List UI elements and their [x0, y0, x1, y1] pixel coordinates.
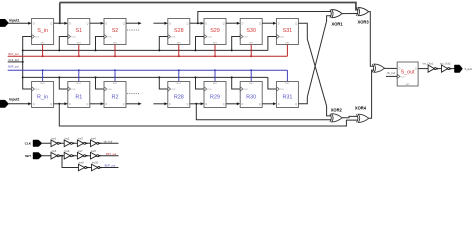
svg-text:XOR1: XOR1	[332, 22, 344, 27]
wire CLK_buf feed	[8, 61, 23, 63]
svg-text:CLK: CLK	[107, 37, 112, 39]
svg-text:Q: Q	[50, 22, 52, 25]
svg-text:D: D	[105, 103, 107, 106]
svg-text:D: D	[278, 103, 280, 106]
wire RST rail (red)	[8, 55, 288, 57]
inverter inv3	[77, 137, 87, 147]
wire BUF rail (blue)	[8, 69, 288, 71]
wire into S28.D (break)	[153, 22, 167, 25]
node branch after inv5	[61, 155, 63, 157]
flip-flop S31	[276, 19, 298, 45]
svg-text:SET: SET	[77, 43, 82, 45]
svg-text:R30: R30	[246, 94, 256, 100]
svg-text:D: D	[169, 103, 171, 106]
svg-text:R2: R2	[112, 94, 119, 100]
svg-text:BUF_out: BUF_out	[105, 163, 116, 167]
wire RST stub R2 (blue)	[114, 69, 116, 81]
svg-text:Input2: Input2	[9, 98, 19, 102]
svg-text:S1: S1	[76, 28, 83, 34]
wire CLK stub R31	[268, 77, 277, 89]
flip-flop R28	[168, 82, 190, 108]
net label CLK_buf	[8, 58, 18, 62]
svg-text:S_in: S_in	[37, 28, 48, 34]
svg-text:CLK: CLK	[401, 77, 406, 79]
svg-text:SET: SET	[406, 84, 411, 86]
svg-text:inv4: inv4	[91, 137, 96, 141]
svg-text:CLK: CLK	[71, 37, 76, 39]
wire SET stub S_in (red)	[42, 45, 44, 58]
flip-flop S1	[68, 19, 90, 45]
xor gate XOR4	[355, 105, 369, 122]
wire CLK stub S30	[231, 37, 241, 52]
wire CLK stub R29	[195, 76, 205, 89]
svg-text:CLK: CLK	[71, 89, 76, 91]
flip-flop S_in	[32, 19, 54, 45]
wire R29.Q to R30.D	[226, 102, 240, 105]
node after inv_Out1	[436, 68, 441, 70]
svg-text:clk_buf: clk_buf	[104, 139, 113, 143]
wire CLK stub S29	[195, 37, 205, 52]
svg-text:CLK: CLK	[35, 89, 40, 91]
xor gate XOR2	[330, 107, 343, 122]
wire riser S28 tap to XOR1 top input rail	[198, 12, 331, 24]
wire XOR2 out to XOR4 top input	[342, 116, 358, 117]
svg-text:CLK: CLK	[171, 37, 176, 39]
wire CLK stub R2	[95, 76, 105, 89]
wire R31.Q up to crossing diagonal	[298, 97, 307, 104]
wire CLK stub S_in	[23, 37, 32, 51]
wire R_in tap down to XOR4 rail	[59, 104, 357, 126]
svg-text:S31: S31	[283, 28, 293, 34]
inverter inv8	[91, 149, 101, 159]
wire clk_buf to S_out.CLK	[386, 75, 397, 77]
wire RST stub R29 (blue)	[214, 69, 216, 81]
wire crossing diagonal R31 to XOR1 bottom input	[307, 16, 331, 97]
svg-text:Q: Q	[187, 22, 189, 25]
wire XOR1 out to XOR3	[342, 13, 358, 15]
svg-text:clk_buf: clk_buf	[387, 71, 395, 75]
wire top CLK rail	[23, 49, 268, 51]
svg-text:RST_out: RST_out	[8, 52, 19, 56]
inverter inv7	[77, 149, 87, 159]
flip-flop R30	[240, 82, 262, 108]
svg-text:R_in: R_in	[37, 94, 48, 100]
input pin Input1	[0, 19, 19, 27]
wire XOR3 out down to XOR5 top input	[369, 12, 374, 67]
flip-flop S30	[240, 19, 262, 45]
wire S_out.Q to inverter chain	[418, 68, 428, 70]
inverter inv_Out2	[440, 61, 451, 72]
wire Input1 to S_in.D	[8, 22, 32, 25]
svg-text:Q: Q	[259, 22, 261, 25]
flip-flop R_in	[32, 82, 54, 108]
svg-text:inv_Out2: inv_Out2	[440, 61, 451, 65]
wire RST stub R1 (blue)	[78, 69, 80, 81]
wire S_in.Q to S1.D with node tap	[54, 22, 68, 25]
svg-text:D: D	[33, 22, 35, 25]
wire top feedback rail to XOR3 top input	[60, 3, 358, 10]
svg-text:RST: RST	[249, 83, 254, 85]
wire R30.Q to R31.D	[262, 102, 276, 105]
wire RST stub R30 (blue)	[250, 69, 252, 81]
wire SET chain	[41, 155, 118, 157]
node CLK distribution vertical	[22, 49, 24, 78]
svg-text:CLK: CLK	[207, 89, 212, 91]
svg-text:S28: S28	[174, 28, 184, 34]
svg-text:SET: SET	[177, 43, 182, 45]
inverter inv4	[91, 137, 101, 147]
svg-text:inv8: inv8	[91, 149, 96, 153]
svg-text:CLK: CLK	[107, 89, 112, 91]
svg-text:inv1: inv1	[51, 137, 56, 141]
wire S28.Q to S29.D with node tap	[190, 22, 204, 25]
svg-text:RST: RST	[285, 83, 290, 85]
svg-text:S30: S30	[246, 28, 256, 34]
svg-text:RST: RST	[177, 83, 182, 85]
xor gate XOR1	[330, 10, 343, 27]
xor gate XOR3	[356, 8, 369, 25]
inverter inv5	[51, 149, 61, 159]
flip-flop R2	[104, 82, 126, 108]
wire R1.Q to R2.D	[90, 102, 104, 105]
wire S1.Q to S2.D	[90, 22, 104, 25]
svg-text:RST_out: RST_out	[106, 152, 117, 156]
ellipsis break bottom row	[127, 93, 139, 94]
svg-text:D: D	[205, 22, 207, 25]
svg-text:inv5: inv5	[51, 149, 56, 153]
wire RST stub R28 (blue)	[178, 69, 180, 81]
net label RST_out chain output (red)	[106, 152, 117, 156]
flip-flop R29	[204, 82, 226, 108]
svg-text:inv6: inv6	[65, 149, 70, 153]
wire into R28.D (break)	[153, 102, 167, 105]
wire S30.Q to S31.D	[262, 22, 276, 25]
svg-text:D: D	[278, 22, 280, 25]
svg-text:D: D	[242, 22, 244, 25]
svg-text:XOR2: XOR2	[331, 107, 343, 112]
ellipsis break top row	[127, 29, 139, 30]
flip-flop S_out	[397, 62, 418, 86]
wire RST stub R_in (blue)	[42, 69, 44, 81]
wire S31.Q down to crossing diagonal	[298, 23, 307, 39]
wire SET stub S2 (red)	[114, 45, 116, 58]
svg-text:inv3: inv3	[78, 137, 83, 141]
wire SET stub S28 (red)	[178, 45, 180, 58]
svg-text:S2: S2	[112, 28, 119, 34]
svg-text:R31: R31	[282, 94, 292, 100]
wire RST stub R31 (blue)	[286, 70, 288, 81]
inverter inv_Out1	[423, 61, 437, 72]
svg-text:SET: SET	[113, 43, 118, 45]
flip-flop S29	[204, 19, 226, 45]
wire CLK stub S1	[58, 37, 68, 52]
input pin CLK	[25, 141, 42, 147]
net label BUF_out chain output (blue)	[105, 163, 116, 167]
svg-text:CLK: CLK	[244, 89, 249, 91]
svg-text:Q: Q	[259, 103, 261, 106]
wire crossing diagonal S31 to XOR2 top input	[307, 39, 331, 116]
svg-text:Q: Q	[87, 22, 89, 25]
svg-text:RST: RST	[40, 83, 45, 85]
wire S29.Q to S30.D	[226, 22, 240, 25]
svg-text:Q: Q	[415, 67, 417, 70]
svg-text:CLK: CLK	[280, 89, 285, 91]
wire CLK stub R1	[58, 76, 68, 89]
wire XOR5 out to S_out.D	[384, 67, 397, 69]
wire SET stub S1 (red)	[78, 45, 80, 58]
inverter inv2	[64, 137, 74, 147]
svg-text:S_out: S_out	[401, 70, 416, 76]
svg-text:SET: SET	[40, 43, 45, 45]
input pin SET	[25, 153, 41, 159]
svg-text:RST: RST	[213, 83, 218, 85]
svg-text:inv7: inv7	[78, 149, 83, 153]
flip-flop R1	[68, 82, 90, 108]
svg-text:D: D	[169, 22, 171, 25]
inverter inv6	[64, 149, 74, 159]
svg-text:inv9: inv9	[79, 161, 84, 165]
svg-text:D: D	[242, 103, 244, 106]
xor gate XOR5	[372, 64, 384, 72]
svg-text:BUF_out: BUF_out	[8, 64, 19, 68]
svg-text:S_out1: S_out1	[465, 68, 473, 71]
svg-text:D: D	[69, 22, 71, 25]
flip-flop R31	[276, 82, 298, 108]
svg-text:XOR4: XOR4	[355, 105, 367, 110]
wire R_in.Q to R1.D with node tap	[54, 102, 68, 105]
wire CLK stub S28	[158, 37, 168, 52]
svg-text:Q: Q	[295, 22, 297, 25]
svg-text:D: D	[205, 103, 207, 106]
svg-text:Q: Q	[223, 22, 225, 25]
svg-text:Q: Q	[187, 103, 189, 106]
inverter inv9	[78, 161, 88, 171]
inverter inv10	[92, 161, 102, 171]
svg-text:CLK: CLK	[35, 37, 40, 39]
wire Input2 to R_in.D	[8, 102, 32, 105]
wire CLK stub R28	[158, 76, 168, 89]
wire SET stub S29 (red)	[214, 45, 216, 58]
svg-text:D: D	[69, 103, 71, 106]
svg-text:Q: Q	[223, 103, 225, 106]
node after inv_Out2	[450, 68, 455, 70]
wire SET stub S31 (red)	[286, 45, 288, 57]
svg-text:inv_Out1: inv_Out1	[423, 61, 434, 65]
wire R28 tap to XOR2 bottom input	[196, 104, 331, 120]
input pin Input2	[0, 98, 19, 107]
net label RST_out (red)	[8, 52, 19, 56]
svg-text:S29: S29	[210, 28, 220, 34]
net label clk_buf chain output	[104, 139, 113, 143]
wire R28.Q to R29.D with node tap	[190, 102, 204, 105]
svg-text:Input1: Input1	[9, 19, 19, 23]
wire S2.Q dangling arrow (break)	[126, 22, 142, 25]
svg-text:CLK: CLK	[244, 37, 249, 39]
svg-text:CLK: CLK	[171, 89, 176, 91]
svg-text:R28: R28	[174, 94, 184, 100]
flip-flop S2	[104, 19, 126, 45]
net label BUF_out (blue)	[8, 64, 19, 68]
svg-text:D: D	[33, 103, 35, 106]
svg-text:RST: RST	[77, 83, 82, 85]
wire R2.Q dangling arrow (break)	[126, 102, 142, 105]
wire bottom CLK rail	[23, 76, 268, 78]
svg-text:R29: R29	[210, 94, 220, 100]
wire CLK stub S2	[95, 37, 105, 52]
svg-text:R1: R1	[75, 94, 82, 100]
wire CLK stub S31	[268, 37, 277, 51]
wire CLK stub R30	[231, 76, 241, 89]
svg-text:SET: SET	[213, 43, 218, 45]
svg-text:RST: RST	[113, 83, 118, 85]
svg-text:Q: Q	[123, 22, 125, 25]
svg-text:Q: Q	[123, 103, 125, 106]
wire SET stub S30 (red)	[250, 45, 252, 58]
wire CLK stub R_in	[23, 77, 32, 89]
svg-text:inv2: inv2	[65, 137, 70, 141]
svg-text:CLK: CLK	[25, 141, 32, 145]
wire XOR4 out up to XOR5 bottom input	[369, 70, 374, 118]
svg-text:CLK: CLK	[280, 37, 285, 39]
svg-text:XOR3: XOR3	[358, 20, 370, 25]
output pin S_out1	[455, 65, 473, 72]
wire branch down to buffer chain	[62, 156, 119, 168]
flip-flop S28	[168, 19, 190, 45]
svg-text:D: D	[105, 22, 107, 25]
net label clk_buf at S_out clock	[387, 71, 395, 75]
svg-text:Q: Q	[87, 103, 89, 106]
svg-text:SET: SET	[249, 43, 254, 45]
inverter inv1	[51, 137, 61, 147]
svg-text:Q: Q	[50, 103, 52, 106]
svg-text:CLK: CLK	[207, 37, 212, 39]
svg-text:SET: SET	[285, 43, 290, 45]
svg-text:SET: SET	[25, 154, 31, 158]
svg-text:inv10: inv10	[92, 161, 99, 165]
wire riser node S_in tap to top feedback rail	[59, 3, 61, 24]
svg-text:Q: Q	[295, 103, 297, 106]
wire CLK chain	[41, 142, 118, 144]
